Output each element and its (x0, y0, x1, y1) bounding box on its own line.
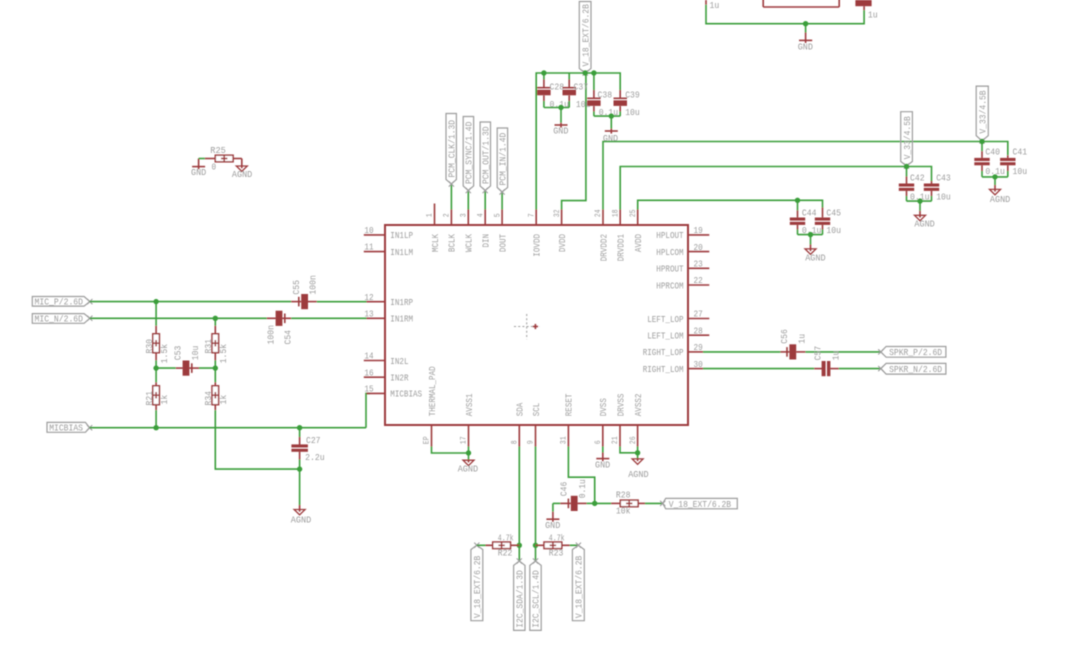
value 1u (right cap) (868, 10, 878, 21)
svg-text:31: 31 (560, 436, 569, 444)
svg-text:C57: C57 (813, 346, 824, 361)
pin 21 DRVSS (619, 425, 621, 447)
label R21 (144, 391, 155, 406)
pin label DIN (481, 234, 492, 248)
svg-text:GND: GND (545, 520, 560, 531)
svg-text:6: 6 (594, 440, 603, 444)
svg-text:1u: 1u (796, 334, 807, 344)
label AGND (AVSS2) (628, 469, 649, 480)
svg-text:C55: C55 (291, 280, 302, 295)
pin 4 DIN (484, 210, 486, 226)
pin label DRVSS (615, 393, 626, 416)
label C53 (172, 345, 183, 360)
value 0.1u (C40) (985, 166, 1005, 177)
svg-text:DRVDD1: DRVDD1 (616, 234, 627, 262)
svg-text:DOUT: DOUT (497, 234, 508, 252)
pin 28 LEFT_LOM (688, 334, 709, 336)
wire R21 to MICBIAS (155, 410, 157, 428)
wire AVDD rail (638, 200, 823, 209)
IC U1 (audio codec) (385, 225, 688, 425)
wire C40/C41 bottoms (982, 176, 1008, 178)
svg-text:THERMAL_PAD: THERMAL_PAD (427, 366, 438, 416)
wire V18 top rail (536, 73, 620, 210)
svg-text:AGND: AGND (990, 194, 1011, 205)
wire V18 to R22 (477, 544, 486, 546)
value 10u (C53) (190, 346, 201, 361)
label R30 (144, 339, 155, 354)
pin number 11 (364, 242, 373, 253)
svg-text:4.7k: 4.7k (549, 533, 565, 544)
svg-text:10u: 10u (826, 225, 841, 236)
junction (top GND net) (803, 21, 808, 26)
svg-text:PCM_CLK/1.3D: PCM_CLK/1.3D (446, 120, 457, 178)
label C54 (282, 330, 293, 345)
pin 30 RIGHT_LOM (688, 368, 703, 370)
net flag V_18_EXT/6.2B (R23) (572, 543, 584, 621)
svg-text:30: 30 (694, 359, 703, 370)
svg-text:C28: C28 (550, 82, 565, 93)
label AGND (R25) (232, 169, 253, 180)
label AGND (C40/C41) (990, 194, 1011, 205)
label GND (C28/C37) (553, 126, 568, 137)
pin number 26 (629, 436, 638, 444)
svg-text:5: 5 (493, 213, 502, 217)
svg-text:V_18_EXT/6.2B: V_18_EXT/6.2B (472, 555, 483, 618)
junction rail at V33 flag (C42) (904, 164, 909, 169)
pin label BCLK (447, 234, 458, 252)
wire to AGND (AVSS2) (637, 453, 639, 459)
pin 8 SDA (518, 425, 520, 447)
pin 7 IOVDD (535, 210, 537, 226)
pin number 22 (694, 275, 703, 286)
svg-text:10u: 10u (1013, 166, 1028, 177)
label AGND (C44/C45) (805, 252, 826, 263)
svg-text:C40: C40 (985, 147, 1000, 158)
pin number 21 (611, 436, 620, 444)
svg-text:1u: 1u (868, 10, 878, 21)
pin label HPLOUT (656, 230, 684, 241)
label R23 (549, 548, 564, 559)
pin 19 HPLOUT (688, 234, 709, 236)
wire DOUT riser (501, 192, 503, 210)
label C28 (550, 82, 565, 93)
value 1u (C57) (830, 351, 841, 361)
ground AGND (AVSS1) (463, 460, 474, 466)
pin number 29 (694, 342, 703, 353)
pin 24 DRVDD2 (602, 210, 604, 226)
svg-text:R28: R28 (616, 490, 631, 501)
wire to AGND (C44/C45) (810, 235, 812, 249)
wire RIGHT_LOP to C56 (703, 351, 780, 353)
junction rail at C44 (795, 198, 800, 203)
IC U2 (regulator, partially cut off at top) (763, 0, 839, 7)
pin number 10 (364, 225, 373, 236)
capacitor C57 1u (814, 361, 839, 376)
net flag PCM_CLK/1.3D (446, 114, 457, 187)
svg-text:IN1RM: IN1RM (390, 314, 413, 325)
svg-text:AGND: AGND (628, 469, 649, 480)
wire C57 to SPKR_N (839, 368, 881, 370)
wire R30 top (155, 302, 157, 326)
wire GND net (top) (706, 5, 864, 24)
capacitor C28 0.1u (537, 73, 551, 108)
svg-text:IN2L: IN2L (390, 356, 408, 367)
svg-text:DIN: DIN (481, 234, 492, 248)
value 1u (left cap) (710, 0, 720, 11)
label C57 (813, 346, 824, 361)
value 10u (C45) (826, 225, 841, 236)
value 4.7k (R23) (549, 533, 565, 544)
svg-text:IN2R: IN2R (390, 373, 408, 384)
capacitor C54 100n (series MIC_N) (267, 311, 291, 326)
wire R31 bottom (214, 360, 216, 368)
pin number 3 (460, 213, 469, 217)
svg-text:C46: C46 (559, 481, 570, 496)
wire DRVSS to AVSS2 (620, 447, 638, 453)
ground AGND (C44/C45) (805, 248, 816, 254)
junction node MICP_BIAS (153, 365, 158, 370)
svg-text:7: 7 (527, 213, 536, 217)
value 0.1u (C38) (599, 107, 619, 118)
resistor R28 10k (611, 500, 645, 507)
svg-text:C45: C45 (826, 207, 841, 218)
pin number 16 (364, 367, 373, 378)
svg-text:IN1LP: IN1LP (390, 230, 413, 241)
svg-text:1.5k: 1.5k (218, 344, 229, 364)
svg-text:R34: R34 (203, 391, 214, 406)
net flag V_18_EXT/6.2B (R28) (660, 498, 737, 509)
svg-text:14: 14 (364, 351, 373, 362)
pin number 20 (694, 242, 703, 253)
pin 11 IN1LM (364, 251, 385, 253)
wire C44/C45 bottoms (798, 234, 823, 236)
pin 6 DVSS (602, 425, 604, 447)
svg-text:V_18_EXT/6.2B: V_18_EXT/6.2B (669, 499, 732, 510)
svg-text:AGND: AGND (458, 464, 479, 475)
wire C54 to pin13 (291, 317, 366, 319)
pin label MCLK (430, 234, 441, 252)
net flag PCM_IN/1.4D (497, 128, 508, 195)
ground GND (R25) (192, 159, 205, 170)
origin cross U1 (514, 314, 540, 340)
pin 17 AVSS1 (468, 425, 470, 447)
wire R23 to V18 (570, 544, 579, 546)
pin number 25 (629, 209, 638, 217)
svg-text:3: 3 (460, 213, 469, 217)
svg-text:C53: C53 (172, 345, 183, 360)
label C56 (779, 329, 790, 344)
pin label IN1RP (390, 297, 413, 308)
pin number 23 (694, 259, 703, 270)
svg-text:8: 8 (511, 440, 520, 444)
pin 14 IN2L (364, 360, 385, 362)
capacitor C39 10u (614, 90, 628, 116)
label C27 (306, 435, 321, 446)
svg-text:11: 11 (364, 242, 373, 253)
svg-text:MIC_P/2.6D: MIC_P/2.6D (35, 297, 84, 308)
pin number 13 (364, 308, 373, 319)
svg-text:HPROUT: HPROUT (656, 264, 684, 275)
pin EP THERMAL_PAD (431, 425, 433, 447)
pin number 19 (694, 225, 703, 236)
svg-text:PCM_IN/1.4D: PCM_IN/1.4D (498, 132, 509, 185)
svg-text:V_18_EXT/6.2B: V_18_EXT/6.2B (574, 555, 585, 618)
net flag V_18_EXT/6.2B (top) (579, 2, 591, 76)
net flag MIC_P/2.6D (32, 297, 92, 308)
pin number 9 (527, 440, 536, 444)
wire WCLK riser (467, 191, 469, 210)
pin label AVSS2 (633, 393, 644, 416)
value 10u (C43) (936, 192, 951, 203)
pin label RESET (564, 393, 575, 416)
value 4.7k (R22) (498, 533, 514, 544)
capacitor C43 10u (924, 181, 939, 201)
wire RIGHT_LOM to C57 (703, 368, 814, 370)
ground AGND (C42/C43) (915, 215, 926, 221)
value 0.1u (C44) (802, 225, 822, 236)
resistor R22 4.7k (486, 542, 520, 549)
pin 25 AVDD (637, 210, 639, 226)
pin number 17 (460, 436, 469, 444)
svg-text:25: 25 (629, 209, 638, 217)
pin 26 AVSS2 (637, 425, 639, 447)
wire C27 to AGND (299, 469, 301, 509)
pin label LEFT_LOM (647, 331, 684, 342)
pin number 18 (611, 209, 620, 217)
pin 31 RESET (567, 425, 569, 447)
value 100n (C55) (308, 275, 319, 295)
capacitor C41 10u (1000, 155, 1015, 177)
pin number 8 (511, 440, 520, 444)
junction C44/C45 AGND node (808, 232, 813, 237)
junction V18 at C28 (541, 70, 546, 75)
wire C46 to GND (552, 503, 554, 511)
svg-text:V_33/4.5B: V_33/4.5B (978, 90, 989, 133)
pin number EP (423, 436, 432, 444)
junction C27 bottom node (297, 466, 302, 471)
svg-text:AVSS2: AVSS2 (633, 393, 644, 416)
pin 23 HPROUT (688, 267, 709, 269)
svg-text:RIGHT_LOM: RIGHT_LOM (643, 364, 684, 375)
pin 27 LEFT_LOP (688, 318, 709, 320)
svg-text:1u: 1u (830, 351, 841, 361)
svg-text:AGND: AGND (805, 252, 826, 263)
svg-text:1.5k: 1.5k (159, 344, 170, 364)
label GND (DVSS) (595, 459, 610, 470)
wire (GND to R25) (199, 158, 205, 160)
wire AVSS1 down (468, 447, 470, 454)
svg-text:LEFT_LOP: LEFT_LOP (647, 314, 684, 325)
pin number 15 (364, 384, 373, 395)
svg-text:0: 0 (212, 161, 217, 172)
pin number 2 (443, 213, 452, 217)
svg-text:GND: GND (191, 167, 206, 178)
svg-text:C43: C43 (936, 172, 951, 183)
pin label AVDD (633, 234, 644, 252)
svg-text:HPLCOM: HPLCOM (656, 247, 684, 258)
net flag V_33/4.5B (C42) (901, 112, 913, 169)
svg-text:WCLK: WCLK (464, 234, 475, 252)
svg-text:V_33/4.5B: V_33/4.5B (902, 116, 913, 159)
capacitor C56 1u (780, 344, 805, 359)
label GND (R25) (191, 167, 206, 178)
ground AGND (C40/C41) (990, 189, 1001, 195)
svg-text:26: 26 (629, 436, 638, 444)
wire DRVDD1 rail (620, 167, 931, 210)
wire RESET node to R28 (595, 502, 611, 504)
pin label IOVDD (532, 234, 543, 257)
ground GND (C46) (546, 512, 559, 522)
pin 3 WCLK (467, 210, 469, 226)
svg-text:2: 2 (443, 213, 452, 217)
svg-text:RESET: RESET (564, 393, 575, 416)
wire C55 to pin12 (317, 301, 367, 303)
ground AGND (AVSS2) (632, 458, 643, 464)
svg-text:R22: R22 (498, 548, 513, 559)
svg-text:1k: 1k (159, 394, 170, 404)
svg-text:AGND: AGND (914, 219, 935, 230)
value 1k (R34) (218, 394, 229, 404)
pin 20 HPLCOM (688, 251, 709, 253)
label R34 (203, 391, 214, 406)
svg-text:PCM_SYNC/1.4D: PCM_SYNC/1.4D (464, 121, 475, 184)
svg-text:MICBIAS: MICBIAS (390, 389, 422, 400)
pin number 31 (560, 436, 569, 444)
svg-text:IN1LM: IN1LM (390, 247, 413, 258)
ground GND (top) (799, 24, 812, 43)
wire to AGND (C42/C43) (919, 201, 921, 215)
wire DVDD riser (562, 73, 586, 210)
junction MICBIAS at R21 (153, 425, 158, 430)
capacitor C? right 1u (855, 0, 871, 10)
junction C42/C43 AGND node (917, 198, 922, 203)
svg-text:MIC_N/2.6D: MIC_N/2.6D (35, 314, 84, 325)
svg-text:C38: C38 (598, 90, 613, 101)
ground GND (C28/C37) (555, 108, 568, 128)
pin label DOUT (497, 234, 508, 252)
svg-text:R30: R30 (144, 339, 155, 354)
junction rail at V33 flag (C40) (979, 139, 984, 144)
capacitor C? left 1u (cut off) (705, 0, 707, 5)
capacitor C44 0.1u (790, 200, 805, 234)
wire SCL (535, 447, 537, 562)
resistor R31 1.5k (212, 326, 219, 361)
svg-text:DVSS: DVSS (598, 398, 609, 416)
svg-text:22: 22 (694, 275, 703, 286)
capacitor C40 0.1u (974, 142, 989, 177)
junction C28/C37 GND node (558, 105, 563, 110)
svg-text:HPLOUT: HPLOUT (656, 230, 684, 241)
pin label RIGHT_LOM (643, 364, 684, 375)
pin label RIGHT_LOP (643, 347, 684, 358)
junction V18 at C38 (591, 70, 596, 75)
pin number 12 (364, 292, 373, 303)
svg-text:19: 19 (694, 225, 703, 236)
svg-text:C44: C44 (802, 207, 817, 218)
ground GND (DVSS) (596, 453, 609, 462)
svg-text:24: 24 (594, 209, 603, 217)
junction C40/C41 AGND node (992, 174, 997, 179)
pin 18 DRVDD1 (619, 210, 621, 226)
svg-text:10u: 10u (625, 107, 640, 118)
net flag V_18_EXT/6.2B (R22) (471, 543, 483, 621)
value 10u (C37) (576, 99, 591, 110)
pin label DVSS (598, 398, 609, 416)
label C46 (559, 481, 570, 496)
wire RESET (568, 447, 594, 504)
pin 10 IN1LP (364, 234, 385, 236)
svg-text:SDA: SDA (515, 402, 526, 416)
pin 9 SCL (535, 425, 537, 447)
value 1.5k (R31) (218, 344, 229, 364)
junction node MICN_BIAS (213, 365, 218, 370)
svg-text:23: 23 (694, 259, 703, 270)
svg-text:V_18_EXT/6.2B: V_18_EXT/6.2B (580, 4, 591, 67)
value 2.2u (C27) (305, 452, 325, 463)
pin number 6 (594, 440, 603, 444)
svg-text:BCLK: BCLK (447, 234, 458, 252)
pin label DVDD (557, 234, 568, 252)
svg-text:C54: C54 (282, 330, 293, 345)
net flag SPKR_P/2.6D (878, 347, 946, 359)
pin number 32 (553, 209, 562, 217)
pin label IN1LP (390, 230, 413, 241)
wire C38/C39 bottoms (594, 115, 620, 117)
value 100n (C54) (266, 325, 277, 345)
capacitor C37 10u (563, 73, 577, 108)
capacitor C42 0.1u (899, 167, 914, 202)
value 0.1u (C28) (550, 99, 570, 110)
svg-text:21: 21 (611, 436, 620, 444)
pin 29 RIGHT_LOP (688, 351, 703, 353)
pin number 7 (527, 213, 536, 217)
svg-text:RIGHT_LOP: RIGHT_LOP (643, 347, 684, 358)
label AGND (C27) (291, 514, 312, 525)
svg-text:DRVDD2: DRVDD2 (598, 234, 609, 262)
svg-text:16: 16 (364, 367, 373, 378)
label C45 (826, 207, 841, 218)
wire EP to AVSS1 (432, 447, 469, 454)
svg-text:4.7k: 4.7k (498, 533, 514, 544)
pin number 30 (694, 359, 703, 370)
capacitor C45 10u (815, 208, 830, 235)
label AGND (AVSS1) (458, 464, 479, 475)
wire DVSS to GND (602, 447, 604, 453)
pin 15 MICBIAS (367, 392, 386, 394)
wire R34 to C27 bottom node (215, 410, 299, 469)
ground AGND (C27) (294, 509, 305, 515)
pin 1 MCLK (434, 204, 436, 226)
svg-text:32: 32 (553, 209, 562, 217)
wire MIC_N (90, 317, 267, 319)
pin label DRVDD1 (616, 234, 627, 262)
capacitor C46 0.1u (553, 496, 595, 511)
svg-text:GND: GND (603, 133, 618, 144)
value 10u (C41) (1013, 166, 1028, 177)
pin 13 IN1RM (367, 317, 386, 319)
net flag PCM_OUT/1.3D (480, 122, 491, 193)
svg-text:18: 18 (611, 209, 620, 217)
value 0.1u (C42) (910, 192, 930, 203)
svg-text:29: 29 (694, 342, 703, 353)
svg-text:AGND: AGND (291, 514, 312, 525)
junction SDA at R22 (517, 543, 522, 548)
svg-text:AVSS1: AVSS1 (464, 393, 475, 416)
net flag PCM_SYNC/1.4D (463, 117, 474, 194)
junction SCL at R23 (533, 543, 538, 548)
junction V18 at flag (583, 70, 588, 75)
svg-text:R23: R23 (549, 548, 564, 559)
